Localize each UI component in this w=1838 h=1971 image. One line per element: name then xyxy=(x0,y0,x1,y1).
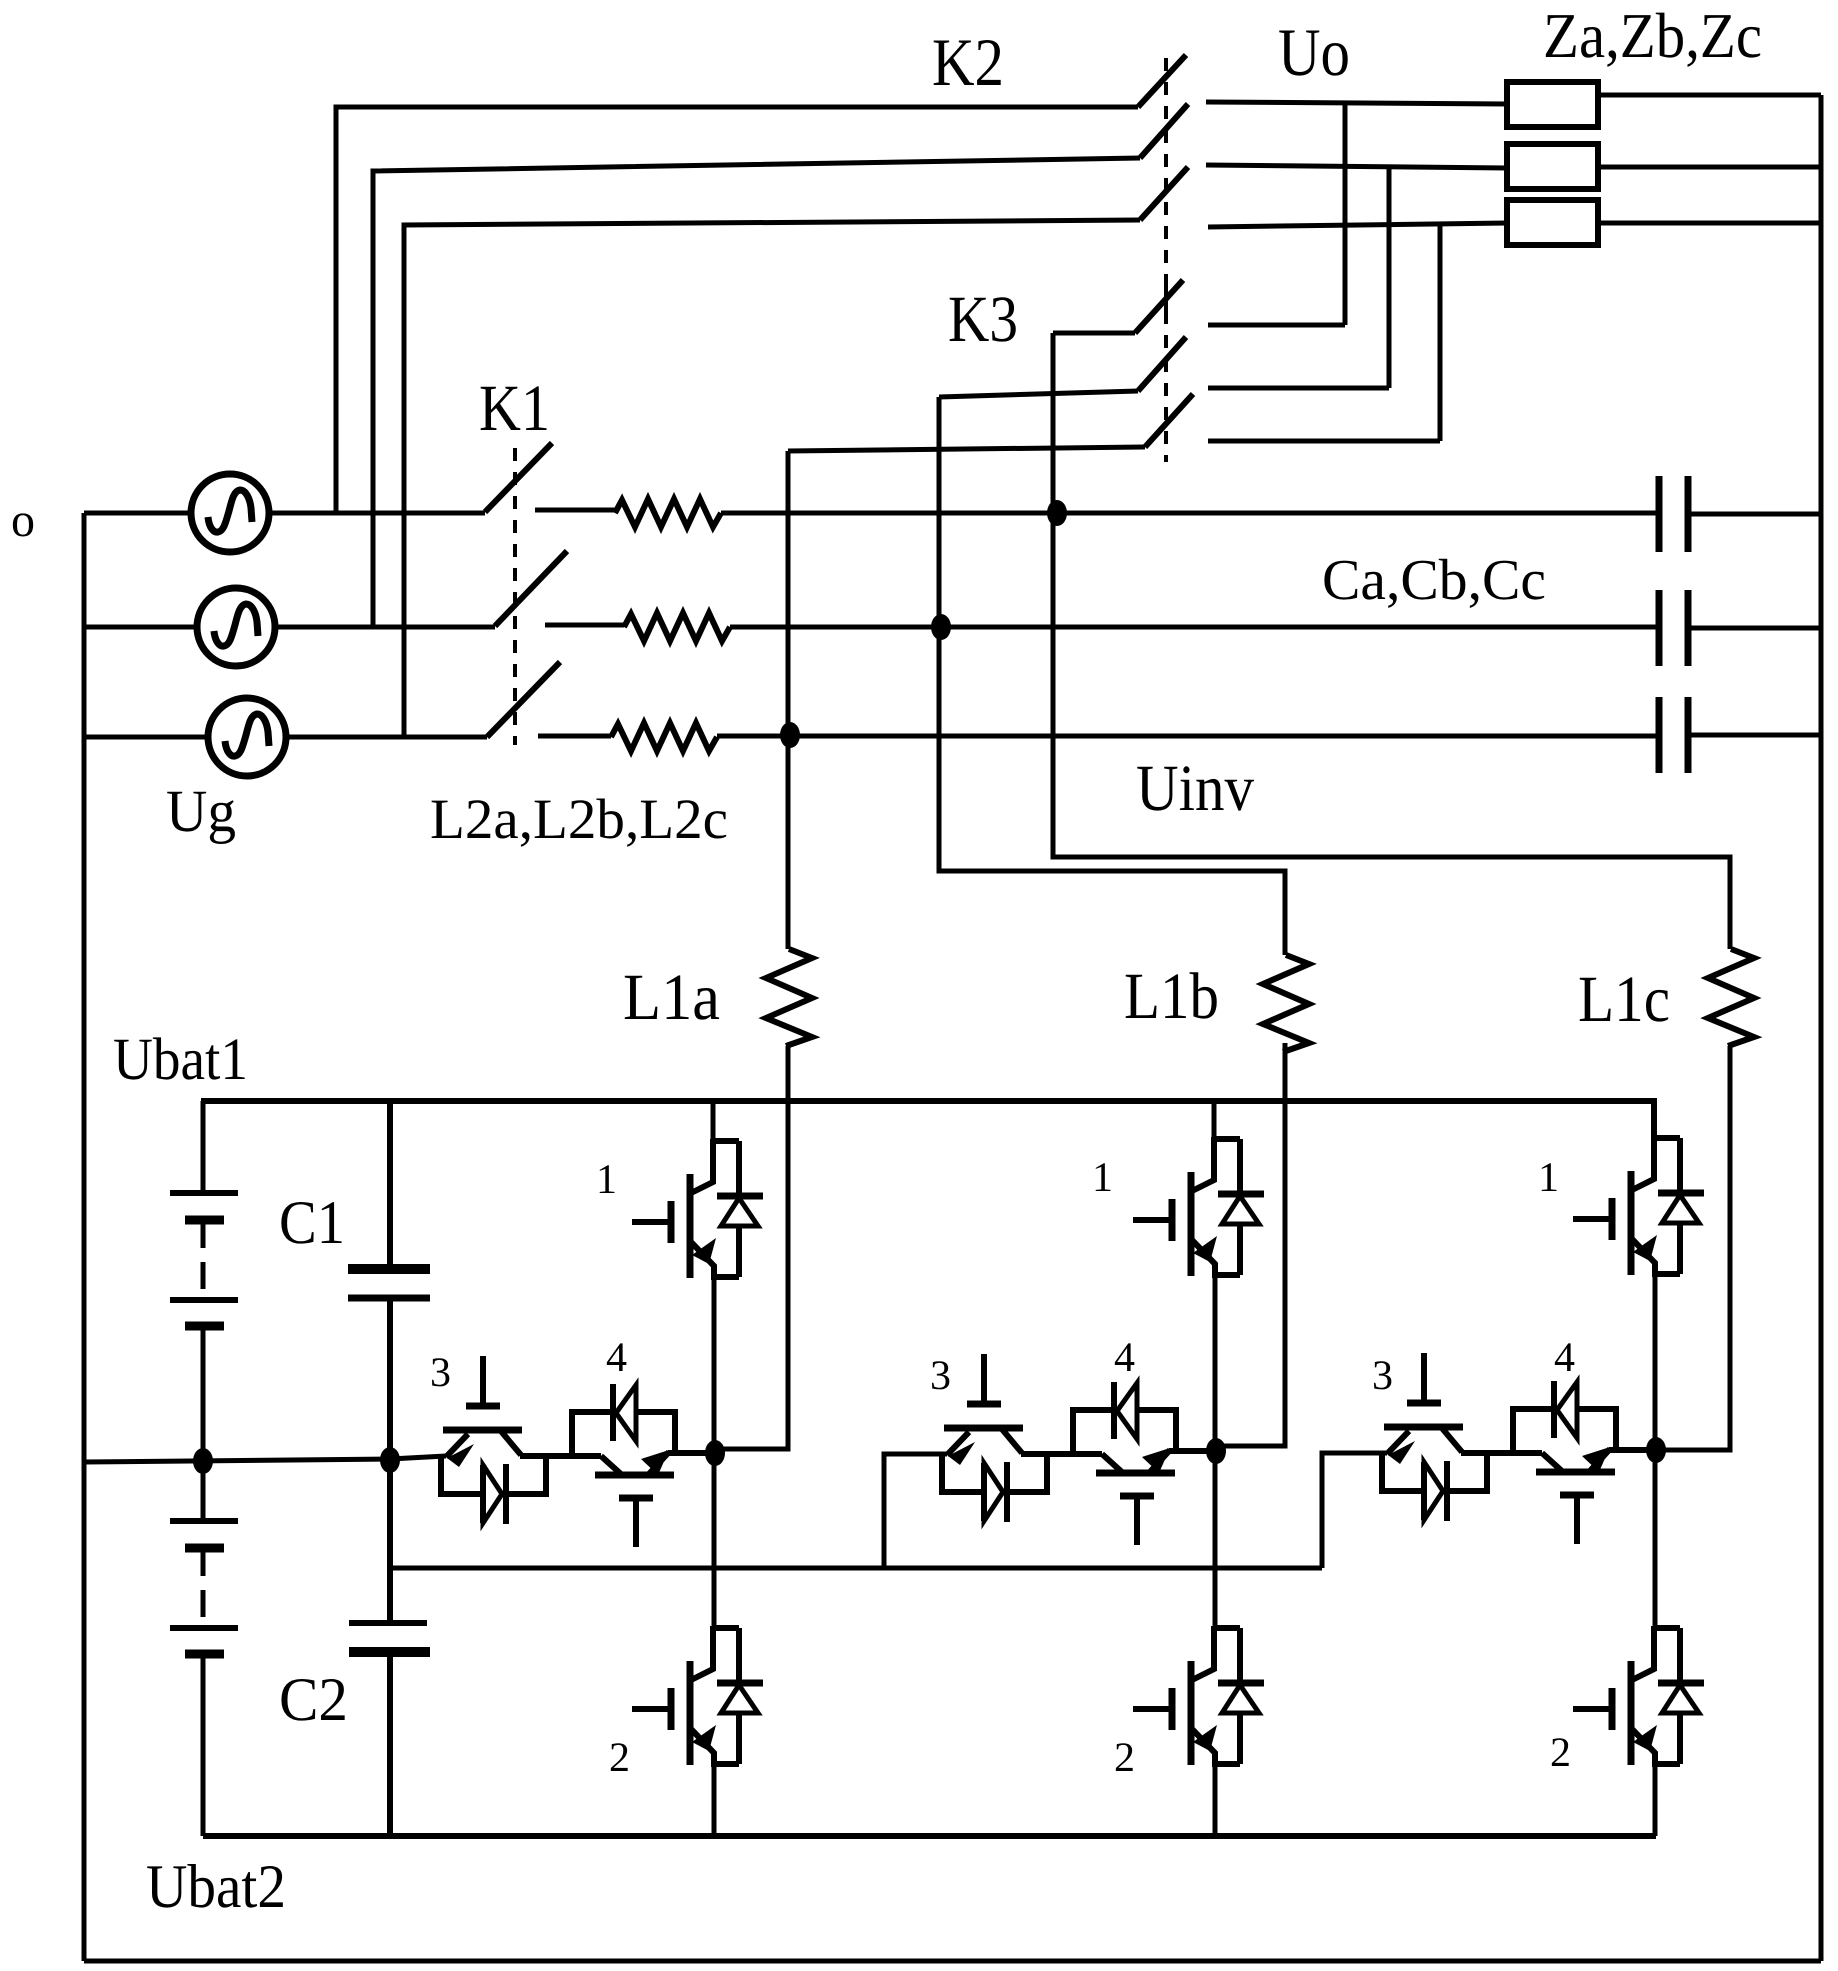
transistor leg c IGBT 4 xyxy=(1513,1381,1656,1544)
wire K1 pole1 right lead xyxy=(535,508,615,513)
switch K2 gang dashed link xyxy=(1164,58,1168,312)
inductor L1c xyxy=(1708,949,1754,1046)
svg-text:Za,Zb,Zc: Za,Zb,Zc xyxy=(1543,0,1762,71)
wire K3 pole3 left lead xyxy=(788,447,1145,451)
transistor leg a IGBT 2 xyxy=(632,1626,763,1765)
impedance Za box xyxy=(1507,82,1598,127)
wire leg b midpoint riser xyxy=(884,1454,947,1568)
svg-text:4: 4 xyxy=(1114,1335,1135,1381)
wire Zb output to neutral bus xyxy=(1598,165,1821,170)
wire phase B source to K1 xyxy=(275,625,495,630)
wire leg c midpoint riser xyxy=(1322,1453,1387,1568)
wire leg b phase column xyxy=(1213,1275,1218,1628)
svg-text:C2: C2 xyxy=(279,1666,348,1734)
svg-text:L2a,L2b,L2c: L2a,L2b,L2c xyxy=(430,788,728,851)
wire L1c to leg c output node xyxy=(1656,1046,1730,1450)
wire Uo-c riser to K3 pole3 xyxy=(1438,223,1443,441)
wire Uo-b riser to K3 pole2 xyxy=(1387,167,1392,388)
svg-text:L1a: L1a xyxy=(623,961,720,1034)
wire L1a to leg a output node xyxy=(715,1046,788,1449)
switch K2 pole 3 blade xyxy=(1140,167,1188,220)
wire K2 pole2 to Zb xyxy=(1206,165,1507,168)
wire leg c emitter to negative rail xyxy=(1653,1764,1658,1836)
wire K3 pole1 riser down and across to L1c xyxy=(1053,333,1730,949)
wire neutral left bus xyxy=(82,513,87,1961)
impedance Zc box xyxy=(1507,200,1598,245)
wire K1 pole3 right lead xyxy=(538,734,611,739)
wire positive DC rail xyxy=(201,1101,1654,1137)
switch K3 pole 2 blade xyxy=(1138,337,1186,391)
wire K3 pole1 left lead xyxy=(1053,331,1135,336)
svg-text:Uinv: Uinv xyxy=(1136,752,1254,825)
wire phase C from bus to source xyxy=(84,735,208,740)
svg-text:Ubat1: Ubat1 xyxy=(113,1026,248,1092)
svg-text:Ca,Cb,Cc: Ca,Cb,Cc xyxy=(1322,547,1546,612)
wire DC mid second rail xyxy=(391,1566,1322,1571)
inductor L1a xyxy=(766,949,812,1046)
wire Za output to neutral bus xyxy=(1598,93,1821,98)
capacitor Ca xyxy=(1659,476,1688,552)
wire leg a phase column xyxy=(712,1277,717,1628)
wire L1b to leg b output node xyxy=(1216,1043,1285,1446)
svg-text:Ug: Ug xyxy=(166,778,236,844)
transistor leg b IGBT 1 xyxy=(1133,1137,1264,1276)
wire phase A source to K1 xyxy=(269,511,485,516)
switch K2 pole 2 blade xyxy=(1140,104,1188,158)
battery Ubat2 xyxy=(170,1521,238,1654)
svg-text:Ubat2: Ubat2 xyxy=(146,1853,286,1921)
wire Ubat1 bottom lead xyxy=(201,1326,206,1461)
svg-text:3: 3 xyxy=(930,1353,951,1399)
source Ug phase C xyxy=(208,698,286,776)
transistor leg c IGBT 2 xyxy=(1573,1626,1704,1765)
node Ubat1/Ubat2 midpoint dot xyxy=(193,1448,213,1474)
svg-text:o: o xyxy=(11,494,35,547)
wire DC midpoint rail xyxy=(84,1456,446,1462)
wire leg c phase column xyxy=(1653,1274,1658,1628)
wire leg b IGBT1 top tap xyxy=(1212,1099,1217,1139)
inductor L1b xyxy=(1263,955,1309,1052)
transistor leg a IGBT 3 xyxy=(441,1356,601,1524)
capacitor C1 xyxy=(348,1264,430,1274)
wire K3 pole2 left lead xyxy=(939,391,1138,397)
svg-text:3: 3 xyxy=(1372,1353,1393,1399)
transistor leg c IGBT 1 xyxy=(1573,1136,1704,1275)
wire riser phase C to K2 xyxy=(404,220,1140,737)
svg-text:C1: C1 xyxy=(279,1189,345,1257)
wire neutral bottom xyxy=(84,1959,1821,1964)
switch K1 pole 3 blade xyxy=(487,662,560,737)
capacitor Cb xyxy=(1659,590,1688,666)
wire Ca to neutral bus xyxy=(1688,512,1821,517)
transistor leg b IGBT 2 xyxy=(1133,1626,1264,1765)
transistor leg b IGBT 4 xyxy=(1073,1382,1216,1545)
source Ug phase B xyxy=(197,588,275,666)
svg-text:2: 2 xyxy=(1550,1730,1571,1776)
svg-text:K1: K1 xyxy=(479,372,550,445)
wire phase B from bus to source xyxy=(84,625,197,630)
svg-text:1: 1 xyxy=(1092,1155,1113,1201)
wire phase C to capacitor Cc xyxy=(717,734,1659,739)
wire Cc to neutral bus xyxy=(1688,733,1821,738)
wire K1 pole2 right lead xyxy=(545,623,624,628)
svg-text:K2: K2 xyxy=(932,24,1004,100)
svg-text:4: 4 xyxy=(606,1335,627,1381)
wire K2 pole3 to Zc xyxy=(1208,223,1507,227)
wire negative DC rail xyxy=(203,1833,1656,1839)
wire K3 pole3 riser down to L1a xyxy=(786,451,791,949)
wire phase A from bus to source xyxy=(84,511,191,516)
svg-text:L1c: L1c xyxy=(1578,963,1670,1036)
impedance Zb box xyxy=(1507,144,1598,189)
node leg a output dot xyxy=(705,1440,725,1466)
wire phase B to capacitor Cb xyxy=(730,625,1659,630)
svg-text:2: 2 xyxy=(1114,1735,1135,1781)
svg-text:3: 3 xyxy=(430,1350,451,1396)
svg-text:4: 4 xyxy=(1554,1335,1575,1381)
transistor leg c IGBT 3 xyxy=(1382,1353,1542,1521)
wire leg a IGBT1 top tap xyxy=(711,1101,716,1141)
wire leg a emitter to negative rail xyxy=(712,1764,717,1836)
battery Ubat1 xyxy=(170,1193,238,1326)
wire K3 pole1 right lead xyxy=(1208,323,1345,328)
svg-text:1: 1 xyxy=(596,1157,617,1203)
svg-text:Uo: Uo xyxy=(1278,14,1350,90)
source Ug phase A xyxy=(191,474,269,552)
wire K2 pole1 to Za xyxy=(1206,102,1507,104)
switch K1 pole 1 blade xyxy=(485,443,552,512)
node phase B junction dot xyxy=(931,614,951,640)
wire C1 bottom lead xyxy=(387,1298,393,1461)
wire phase A to capacitor Ca xyxy=(721,511,1659,516)
transistor leg a IGBT 4 xyxy=(572,1384,715,1547)
wire Cb to neutral bus xyxy=(1688,626,1821,631)
node leg c output dot xyxy=(1646,1437,1666,1463)
capacitor Cc xyxy=(1659,697,1688,773)
wire Ubat2 top lead xyxy=(201,1461,206,1521)
transistor leg a IGBT 1 xyxy=(632,1139,763,1278)
switch K1 pole 2 blade xyxy=(495,551,567,626)
svg-text:L1b: L1b xyxy=(1124,960,1219,1033)
inductor L2b xyxy=(624,613,730,641)
node phase A junction dot xyxy=(1047,500,1067,526)
switch K3 pole 3 blade xyxy=(1145,394,1193,447)
wire riser phase B to K2 xyxy=(373,158,1140,627)
switch K2 pole 1 blade xyxy=(1138,55,1186,107)
switch K3 pole 1 blade xyxy=(1135,280,1183,333)
wire K3 pole2 right lead xyxy=(1208,386,1389,391)
svg-text:K3: K3 xyxy=(948,283,1018,356)
wire Ubat1 top lead xyxy=(201,1101,206,1193)
switch K3 gang dashed link xyxy=(1164,287,1168,462)
svg-text:2: 2 xyxy=(609,1735,630,1781)
inductor L2c xyxy=(611,723,717,751)
capacitor C2 xyxy=(349,1620,427,1626)
switch K1 gang dashed link xyxy=(513,448,517,745)
wire phase C source to K1 xyxy=(286,735,487,740)
transistor leg b IGBT 3 xyxy=(942,1354,1102,1522)
wire K3 pole3 right lead xyxy=(1208,439,1440,444)
wire Zc output to neutral bus xyxy=(1598,221,1821,226)
node C1/C2 midpoint dot xyxy=(380,1447,400,1473)
node leg b output dot xyxy=(1206,1438,1226,1464)
wire neutral right bus xyxy=(1819,95,1824,1961)
wire riser phase A to K2 xyxy=(336,107,1138,513)
wire leg b emitter to negative rail xyxy=(1213,1764,1218,1836)
node phase C junction dot xyxy=(780,722,800,748)
wire C1 to C2 link xyxy=(387,1460,393,1623)
wire C1 top lead xyxy=(387,1101,393,1266)
wire Ubat2 bottom lead xyxy=(201,1654,206,1836)
wire K3 pole2 riser down and across to L1b xyxy=(939,397,1285,955)
inductor L2a xyxy=(615,499,721,527)
wire Uo-a riser to K3 pole1 xyxy=(1343,104,1348,325)
wire C2 bottom lead xyxy=(387,1652,393,1836)
svg-text:1: 1 xyxy=(1538,1155,1559,1201)
